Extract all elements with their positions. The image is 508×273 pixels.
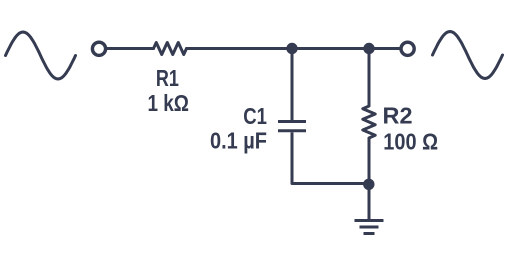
- svg-text:R1: R1: [156, 65, 179, 91]
- wire input terminal to R1: [107, 47, 154, 50]
- bottom wire C1 to node C: [292, 182, 369, 185]
- node C junction: [363, 179, 374, 190]
- label R1: [156, 65, 179, 91]
- value label 0.1 uF: [210, 128, 267, 154]
- resistor R2: [363, 106, 375, 138]
- node B junction: [363, 43, 374, 54]
- input terminal: [92, 42, 105, 55]
- wire node A to node B: [292, 47, 369, 50]
- svg-text:100 Ω: 100 Ω: [383, 129, 438, 155]
- wire C1 down to bottom rail: [291, 132, 294, 183]
- capacitor C1: [278, 122, 306, 131]
- ground: [355, 221, 384, 234]
- svg-text:R2: R2: [383, 103, 413, 129]
- value label 100 Ohm: [383, 129, 438, 155]
- label R2: [383, 103, 413, 129]
- svg-text:C1: C1: [243, 103, 267, 129]
- value label 1 kOhm: [147, 90, 189, 116]
- wire R2 to node C: [368, 138, 371, 184]
- wire node B down to R2: [368, 49, 371, 107]
- input sine wave: [6, 32, 76, 79]
- wire R1 to node A: [187, 47, 293, 50]
- node A junction: [286, 43, 297, 54]
- output sine wave: [433, 32, 503, 79]
- svg-text:0.1 µF: 0.1 µF: [210, 128, 267, 154]
- resistor R1: [154, 43, 187, 55]
- wire node A down to C1: [291, 49, 294, 121]
- wire node C to ground: [368, 184, 371, 220]
- svg-text:1 kΩ: 1 kΩ: [147, 90, 189, 116]
- output terminal: [401, 42, 414, 55]
- label C1: [243, 103, 267, 129]
- wire node B to output terminal: [369, 47, 401, 50]
